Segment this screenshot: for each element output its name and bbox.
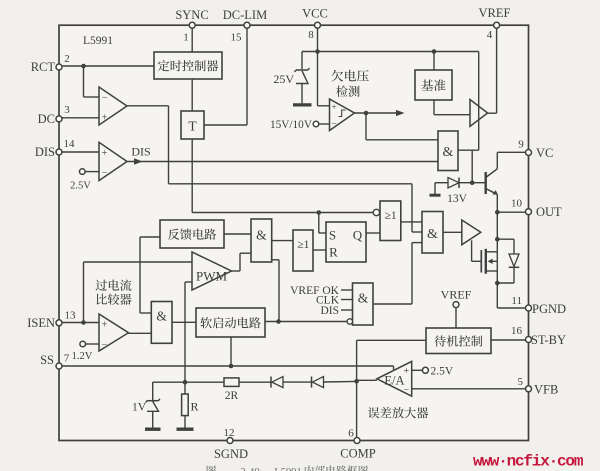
wire AND2 to soft start xyxy=(172,321,196,323)
wire UVLO output with arrow xyxy=(355,110,405,116)
op-amp VREF buffer xyxy=(470,100,488,127)
wire to transistor base xyxy=(472,182,486,184)
pin 9 VC xyxy=(518,139,553,161)
svg-text:E/A: E/A xyxy=(384,374,404,388)
svg-text:15: 15 xyxy=(231,32,243,44)
block standby control 待机控制 xyxy=(426,328,491,354)
caption cropped xyxy=(207,465,368,471)
wire SYNC down xyxy=(191,28,193,52)
svg-text:≥1: ≥1 xyxy=(297,239,309,251)
svg-text:2-40: 2-40 xyxy=(240,467,259,471)
label 13V xyxy=(447,193,468,205)
wire reference to buffer xyxy=(434,100,470,115)
wire source node to PGND xyxy=(497,283,525,308)
wire Q to OR gate xyxy=(366,232,380,234)
diode 13V xyxy=(448,178,472,189)
wire AND output xyxy=(458,149,479,151)
svg-text:R: R xyxy=(191,400,199,414)
wire comparator to AND2 xyxy=(129,332,152,334)
latch SR xyxy=(326,222,366,262)
zener 25V xyxy=(273,68,309,103)
svg-text:+: + xyxy=(102,113,108,124)
svg-text:SGND: SGND xyxy=(214,447,248,461)
wire rail end down xyxy=(478,52,480,151)
pin 16 ST-BY xyxy=(511,325,566,347)
svg-text:5: 5 xyxy=(518,376,524,388)
transistor Q1 NPN xyxy=(486,169,498,195)
block T flip-flop xyxy=(181,111,204,139)
stub VREF OK input xyxy=(290,285,352,297)
wire COMP up to standby xyxy=(357,339,426,341)
wire soft start divider to PWM input xyxy=(185,282,192,382)
gate AND isen xyxy=(151,302,172,344)
svg-text:+: + xyxy=(102,148,108,159)
gate AND standby inputs xyxy=(347,283,373,325)
pin 3 DC xyxy=(38,104,71,126)
svg-text:+: + xyxy=(331,103,336,113)
terminal VREF xyxy=(441,288,472,329)
node base junction xyxy=(470,180,475,185)
wire osc comparator output xyxy=(127,106,422,232)
gate OR output stage xyxy=(373,201,401,241)
node clock to latch S xyxy=(317,210,322,215)
svg-text:L5991: L5991 xyxy=(274,467,301,471)
resistor 2R xyxy=(224,378,271,402)
label error amplifier 误差放大器 xyxy=(368,407,428,418)
wire ISEN input xyxy=(62,322,99,324)
pin 7 SS xyxy=(40,353,70,370)
svg-text:3: 3 xyxy=(64,104,70,116)
wire EA inverting to VFB xyxy=(412,388,526,390)
label undervoltage detect 欠电压检测 xyxy=(331,70,368,97)
svg-text:&: & xyxy=(156,309,167,324)
node COMP xyxy=(354,379,359,384)
wire VCC down xyxy=(317,28,319,51)
pin 6 COMP xyxy=(340,428,375,461)
svg-text:DC-LIM: DC-LIM xyxy=(223,8,267,22)
svg-text:1.2V: 1.2V xyxy=(72,351,93,362)
svg-text:DIS: DIS xyxy=(320,305,339,317)
gate AND UVLO xyxy=(438,131,458,171)
svg-text:ST-BY: ST-BY xyxy=(531,333,566,347)
wire gate3 output xyxy=(373,303,412,305)
gate AND pwm xyxy=(251,219,272,262)
block feedback 反馈电路 xyxy=(160,220,224,248)
wire OUT node to pin xyxy=(497,211,525,213)
node rail to reference xyxy=(432,49,437,54)
wire collector to VC xyxy=(497,152,525,169)
svg-text:12: 12 xyxy=(224,427,235,439)
svg-text:13: 13 xyxy=(65,310,77,322)
wire COMP line xyxy=(356,340,358,437)
wire DIS to comparator xyxy=(62,151,99,153)
svg-text:+: + xyxy=(102,320,108,331)
op-amp osc comparator xyxy=(99,87,127,125)
svg-text:DIS: DIS xyxy=(35,145,55,159)
svg-text:+: + xyxy=(403,366,409,377)
node drain junction xyxy=(495,237,500,242)
wire ground to 13V diode xyxy=(435,183,448,195)
watermark www.ncfix.com xyxy=(473,453,584,471)
svg-text:2.5V: 2.5V xyxy=(70,181,91,192)
wire feedback left to AND isen xyxy=(140,237,160,313)
node soft start xyxy=(276,319,281,324)
wire timing controller to T xyxy=(191,79,193,111)
resistor R xyxy=(182,382,199,427)
svg-text:8: 8 xyxy=(308,29,314,41)
svg-text:VC: VC xyxy=(536,146,553,160)
block soft start 软启动电路 xyxy=(196,308,265,337)
ground 13V clamp xyxy=(430,194,441,197)
svg-text:−: − xyxy=(102,93,108,104)
svg-text:2.5V: 2.5V xyxy=(431,366,454,378)
ground 25V zener xyxy=(293,103,312,106)
svg-text:Q: Q xyxy=(353,228,363,243)
wire soft start output xyxy=(265,321,347,323)
pin 13 ISEN xyxy=(27,310,76,331)
wire ISEN up to PWM comparator xyxy=(84,262,193,323)
svg-text:VFB: VFB xyxy=(534,383,558,397)
svg-text:PGND: PGND xyxy=(532,302,566,316)
diode D2 xyxy=(312,377,357,388)
node OUT xyxy=(495,210,500,215)
stub CLK input xyxy=(316,295,353,307)
svg-text:25V: 25V xyxy=(273,72,294,86)
svg-text:7: 7 xyxy=(64,353,70,365)
svg-text:−: − xyxy=(102,340,108,351)
svg-text:&: & xyxy=(427,227,438,242)
wire DIS comparator output to UVLO AND gate xyxy=(127,161,438,163)
svg-text:1: 1 xyxy=(183,32,189,44)
pin 1 SYNC xyxy=(175,8,208,44)
wire DC-LIM down to T xyxy=(204,28,247,125)
svg-text:COMP: COMP xyxy=(340,447,375,461)
pin 11 PGND xyxy=(511,295,566,316)
pin 4 VREF xyxy=(479,6,511,41)
svg-text:T: T xyxy=(188,119,197,134)
diode freewheel xyxy=(497,239,519,283)
wire soft start down to SS line xyxy=(230,337,232,366)
svg-text:OUT: OUT xyxy=(536,205,562,219)
wire rail to reference box xyxy=(433,52,435,71)
svg-text:−: − xyxy=(102,168,108,179)
wire clock down to S input xyxy=(319,213,326,234)
block timing controller 定时控制器 xyxy=(154,52,222,79)
label overcurrent comparator 过电流比较器 xyxy=(96,279,132,304)
gate AND driver xyxy=(422,212,443,254)
wire AND to OR2 xyxy=(272,240,293,242)
svg-text:DC: DC xyxy=(38,112,55,126)
op-amp overcurrent comparator xyxy=(99,314,129,351)
svg-text:SYNC: SYNC xyxy=(175,8,208,22)
pin 10 OUT xyxy=(511,198,562,220)
svg-text:&: & xyxy=(443,145,454,160)
svg-text:−: − xyxy=(403,385,409,396)
IC body L5991 outline xyxy=(59,25,529,440)
wire driver to gate xyxy=(472,240,481,261)
wire feedback to AND xyxy=(224,233,251,235)
op-amp UVLO comparator with hysteresis xyxy=(330,99,355,131)
arrow DIS output xyxy=(134,158,143,164)
ground 1V zener xyxy=(145,428,161,431)
svg-text:10: 10 xyxy=(511,198,523,210)
zener 1V xyxy=(132,382,160,427)
svg-text:www·ncfix·com: www·ncfix·com xyxy=(473,453,584,471)
wire OR to AND input xyxy=(401,221,422,223)
pin 12 SGND xyxy=(214,427,248,461)
label DIS output xyxy=(131,145,150,159)
stub DIS input xyxy=(320,305,352,317)
svg-text:&: & xyxy=(256,228,267,243)
wire SS line xyxy=(62,366,394,370)
diode D1 xyxy=(271,377,312,388)
wire OR2 to R input xyxy=(313,249,326,251)
pin 15 DC-LIM xyxy=(223,8,267,44)
svg-text:2: 2 xyxy=(64,53,70,65)
wire UVLO output down to AND xyxy=(366,113,438,140)
label L5991 xyxy=(83,35,113,47)
block reference 基准 xyxy=(415,70,452,100)
op-amp PWM comparator xyxy=(192,252,232,290)
svg-text:SS: SS xyxy=(40,353,54,367)
wire VCC rail xyxy=(302,51,479,53)
svg-text:DIS: DIS xyxy=(131,145,150,159)
wire standby to ST-BY pin xyxy=(491,339,526,341)
pin 8 VCC xyxy=(302,7,328,42)
svg-text:1V: 1V xyxy=(132,402,147,414)
svg-text:VREF: VREF xyxy=(479,6,511,20)
node SS soft start xyxy=(229,364,234,369)
wire PWM output to AND xyxy=(232,253,252,271)
node RCT junction xyxy=(81,64,86,69)
svg-text:2R: 2R xyxy=(225,390,239,402)
op-amp error amplifier E/A xyxy=(377,361,412,396)
svg-text:13V: 13V xyxy=(447,193,468,205)
node source junction xyxy=(495,281,500,286)
wire RCT to timing controller xyxy=(62,65,154,67)
wire OUT node down xyxy=(496,212,498,283)
op-amp driver xyxy=(462,220,481,245)
wire T output clock line xyxy=(192,139,373,213)
svg-text:&: & xyxy=(358,291,369,306)
svg-text:S: S xyxy=(329,228,336,243)
svg-text:VREF: VREF xyxy=(441,288,472,302)
svg-text:9: 9 xyxy=(518,139,524,151)
pin 14 DIS xyxy=(35,138,75,159)
ground resistor R xyxy=(177,428,194,431)
node UVLO output xyxy=(364,111,369,116)
svg-text:6: 6 xyxy=(348,428,354,440)
source 1.2V xyxy=(72,341,99,362)
op-amp DIS comparator xyxy=(99,142,127,180)
svg-text:VCC: VCC xyxy=(302,7,328,21)
svg-text:R: R xyxy=(329,245,338,260)
svg-text:L5991: L5991 xyxy=(83,35,113,47)
wire AND output down to base node xyxy=(471,150,473,183)
wire EA output to COMP node xyxy=(357,379,377,381)
svg-text:11: 11 xyxy=(511,295,522,307)
wire DC to osc comparator xyxy=(62,117,99,119)
wire VCC down to UVLO comparator xyxy=(318,52,330,106)
svg-text:RCT: RCT xyxy=(31,60,56,74)
wire emitter to OUT node xyxy=(496,194,498,212)
svg-text:ISEN: ISEN xyxy=(27,316,55,330)
wire AND corner to soft start node xyxy=(272,260,279,322)
wire rail down to 25V zener xyxy=(301,52,303,70)
source 15V/10V xyxy=(270,119,330,131)
wire gate3 output up to AND input xyxy=(412,243,422,304)
svg-text:15V/10V: 15V/10V xyxy=(270,119,313,131)
wire buffer output to VREF pin xyxy=(488,28,497,113)
svg-text:16: 16 xyxy=(511,325,523,337)
source 2.5V for DIS comparator xyxy=(70,169,99,192)
gate OR pwm xyxy=(293,230,313,271)
svg-text:4: 4 xyxy=(487,29,493,41)
transistor M1 MOSFET xyxy=(481,249,497,274)
node VCC rail xyxy=(315,49,320,54)
source 2.5V for EA xyxy=(412,366,454,378)
wire divider chain xyxy=(153,381,224,383)
svg-text:PWM: PWM xyxy=(196,269,228,284)
node divider xyxy=(183,380,188,385)
svg-text:−: − xyxy=(331,120,336,130)
wire junction down to osc comparator inverting input xyxy=(84,66,100,97)
wire AND to driver xyxy=(443,231,462,233)
node ISEN junction xyxy=(81,320,86,325)
svg-text:≥1: ≥1 xyxy=(385,210,397,222)
svg-text:14: 14 xyxy=(64,138,76,150)
pin 5 VFB xyxy=(518,376,559,397)
pin 2 RCT xyxy=(31,53,70,74)
